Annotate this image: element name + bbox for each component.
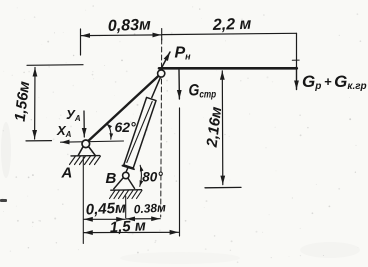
svg-text:62°: 62°: [115, 119, 137, 135]
svg-text:80°: 80°: [142, 170, 163, 185]
svg-text:0,83м: 0,83м: [108, 17, 152, 35]
svg-text:В: В: [106, 170, 117, 187]
svg-text:1,5 м: 1,5 м: [109, 217, 146, 236]
svg-text:А: А: [61, 165, 73, 182]
svg-text:2,2 м: 2,2 м: [212, 16, 252, 34]
svg-text:0,45м: 0,45м: [85, 199, 126, 218]
svg-text:0.38м: 0.38м: [133, 200, 166, 216]
